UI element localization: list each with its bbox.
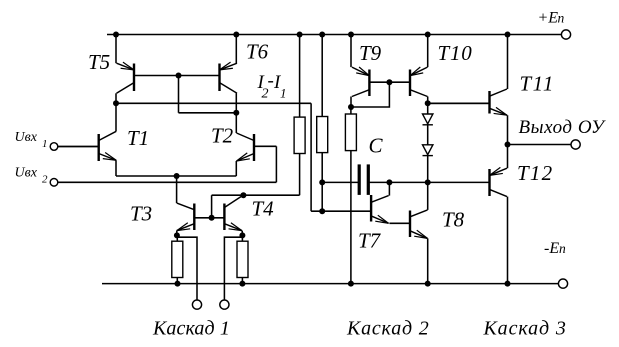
wire output (508, 144, 572, 146)
svg-text:T10: T10 (438, 41, 473, 65)
wire T11 emitter to output (507, 115, 509, 144)
node T6 collector junction (233, 110, 239, 116)
label C (369, 134, 384, 158)
wire T11 base (428, 102, 490, 104)
node T11 collector on +Ep rail (505, 32, 511, 38)
svg-text:T5: T5 (88, 50, 110, 74)
label Kaskad 3 (483, 318, 567, 340)
wire T4 emitter down (241, 231, 243, 236)
svg-text:C: C (369, 134, 384, 158)
label output Vyhod OU (519, 117, 607, 138)
wire base tie to T6 collector (179, 112, 237, 114)
wire T9 collector (350, 97, 352, 108)
svg-text:T6: T6 (246, 40, 269, 64)
wire R1 bottom (299, 154, 301, 196)
wire T4 emitter to null pin (224, 237, 242, 300)
wire T2 emitter (235, 161, 237, 176)
wire R5 top (241, 235, 243, 241)
wire base tie up (211, 195, 213, 218)
resistor R3 (345, 114, 356, 151)
wire T7 emitter to T8 base (389, 222, 410, 224)
wire R3 top (350, 107, 352, 114)
node T10 emitter on +Ep rail (425, 32, 431, 38)
wire T6 collector to T2 collector (235, 93, 237, 133)
node T4 collector junction (240, 192, 246, 198)
node T3 emitter (174, 232, 180, 238)
wire emitter line down to T3 (176, 176, 178, 203)
node output junction (505, 142, 511, 148)
node diode chain bottom junction (425, 179, 431, 185)
resistor R2 (317, 117, 328, 153)
wire R2 bottom (321, 153, 323, 212)
svg-text:T7: T7 (358, 229, 382, 253)
terminal output (571, 140, 580, 149)
svg-text:2: 2 (42, 174, 48, 186)
transistor T4 (224, 196, 242, 231)
label T5 (88, 50, 110, 74)
wire T1 collector (115, 103, 117, 131)
wire R4 bottom (176, 278, 178, 284)
label T4 (252, 197, 275, 221)
svg-text:T8: T8 (442, 208, 465, 232)
svg-text:Выход ОУ: Выход ОУ (519, 117, 607, 138)
transistor T11 (428, 89, 507, 115)
wire to T7 base (311, 210, 371, 212)
label T11 (520, 72, 555, 96)
label T12 (517, 161, 553, 185)
svg-text:T3: T3 (130, 202, 152, 226)
transistor T1 (58, 131, 116, 161)
label T9 (359, 41, 382, 65)
svg-text:T11: T11 (520, 72, 555, 96)
wire top +Ep power rail (107, 34, 561, 36)
svg-text:Каскад 3: Каскад 3 (483, 318, 567, 340)
wire input2 up (275, 146, 277, 182)
node R5 bottom (239, 281, 245, 287)
wire capacitor left (322, 181, 359, 183)
label Uvh2 (15, 166, 49, 186)
wire T6 emitter (235, 35, 237, 64)
node T8 emitter on -Ep rail (425, 281, 431, 287)
svg-text:T9: T9 (359, 41, 382, 65)
label Kaskad 1 (152, 318, 230, 340)
resistor R1 (294, 117, 305, 153)
transistor T8 (410, 210, 428, 239)
node T5-T1 collector junction (113, 100, 119, 106)
svg-text:T2: T2 (211, 124, 234, 148)
node T5 emitter on +Ep rail (113, 32, 119, 38)
node R2 bottom on T7 base line (319, 208, 325, 214)
terminal null pin 1 (192, 300, 201, 309)
transistor T7 (371, 195, 389, 223)
label Kaskad 2 (346, 318, 430, 340)
terminal input Uvh2 (50, 179, 58, 187)
svg-text:Uвх: Uвх (15, 166, 38, 181)
wire diode chain (427, 103, 429, 182)
wire T8 emitter (427, 238, 429, 283)
transistor T12 (490, 167, 508, 196)
label T2 (211, 124, 234, 148)
wire R4 top (176, 235, 178, 241)
transistor T10 (369, 67, 427, 97)
node R2 top on +Ep rail (319, 32, 325, 38)
svg-text:Каскад 2: Каскад 2 (346, 318, 430, 340)
label Uvh1 (15, 130, 48, 150)
node T9-T10 base tie (386, 79, 392, 85)
svg-text:п: п (558, 11, 565, 26)
wire bottom -Ep power rail (102, 283, 558, 285)
label -Ep (544, 240, 566, 257)
wire T11 collector (507, 35, 509, 90)
wire T12 emitter (507, 145, 509, 169)
label T6 (246, 40, 269, 64)
svg-text:1: 1 (42, 138, 48, 150)
resistor R5 (237, 241, 248, 277)
svg-text:п: п (559, 241, 566, 256)
node R3 bottom on -Ep rail (348, 281, 354, 287)
node T7 collector junction (386, 179, 392, 185)
wire input1 to T1 base (58, 146, 99, 148)
wire R3 bottom to -Ep rail (350, 151, 352, 284)
node emitter line junction (174, 173, 180, 179)
label +Ep (538, 10, 565, 27)
wire T1 emitter (115, 160, 117, 176)
node T3-T4 base tie (209, 215, 215, 221)
diode D2 (423, 145, 433, 156)
node T10 collector junction (425, 100, 431, 106)
diode D1 (423, 114, 433, 125)
wire T3 emitter down (176, 231, 178, 236)
wire T9-T10 base down (351, 82, 389, 107)
wire T5 collector (115, 93, 117, 103)
wire T10 emitter (427, 35, 429, 68)
wire T8 collector (427, 182, 429, 210)
wire R2 top (321, 35, 323, 117)
terminal null pin 2 (220, 300, 229, 309)
label T3 (130, 202, 152, 226)
svg-text:T1: T1 (127, 126, 149, 150)
svg-text:+E: +E (538, 10, 559, 27)
label T1 (127, 126, 149, 150)
label T10 (438, 41, 473, 65)
node T12 collector on -Ep rail (505, 281, 511, 287)
wire T9 emitter (350, 35, 352, 68)
wire T7 collector (388, 182, 390, 195)
wire to R1 bottom (212, 194, 300, 196)
node R1 top on +Ep rail (297, 32, 303, 38)
wire T12 collector (507, 197, 509, 284)
wire T5-T6 base down (178, 76, 180, 113)
label T7 (358, 229, 382, 253)
node T5-T6 base tie (176, 73, 182, 79)
svg-text:T4: T4 (252, 197, 275, 221)
svg-text:1: 1 (280, 86, 287, 101)
wire R1 top (299, 35, 301, 118)
transistor T3 (177, 203, 225, 231)
node T6 emitter on +Ep rail (233, 32, 239, 38)
node T9 collector junction (348, 104, 354, 110)
capacitor C left plate (358, 164, 361, 195)
wire capacitor right to T12 base (368, 181, 489, 183)
transistor T2 (237, 133, 277, 161)
wire R5 bottom (241, 278, 243, 284)
wire common emitter line T1-T2 (116, 175, 236, 177)
label T8 (442, 208, 465, 232)
wire down to stage2 (310, 103, 312, 211)
wire T3 emitter to null pin (177, 237, 197, 300)
node T4 emitter (239, 232, 245, 238)
node R2-capacitor junction (319, 179, 325, 185)
resistor R4 (172, 241, 183, 277)
wire T10 collector (427, 97, 429, 104)
svg-text:Каскад 1: Каскад 1 (152, 318, 230, 340)
node R4 bottom (175, 281, 181, 287)
label I2-I1 (257, 71, 287, 102)
transistor T6 (134, 62, 237, 93)
transistor T5 (117, 62, 135, 93)
transistor T9 (352, 67, 370, 97)
terminal +Ep (561, 30, 570, 39)
wire input2 line (58, 181, 277, 183)
node T9 emitter on +Ep rail (348, 32, 354, 38)
capacitor C right plate (367, 164, 370, 195)
wire collector rail T5-T1 (116, 102, 311, 104)
svg-text:-: - (268, 71, 274, 92)
terminal -Ep (558, 279, 567, 288)
terminal input Uvh1 (50, 143, 58, 151)
wire T5 emitter (115, 35, 117, 64)
svg-text:T12: T12 (517, 161, 553, 185)
svg-text:-E: -E (544, 240, 559, 257)
svg-text:Uвх: Uвх (15, 130, 38, 145)
